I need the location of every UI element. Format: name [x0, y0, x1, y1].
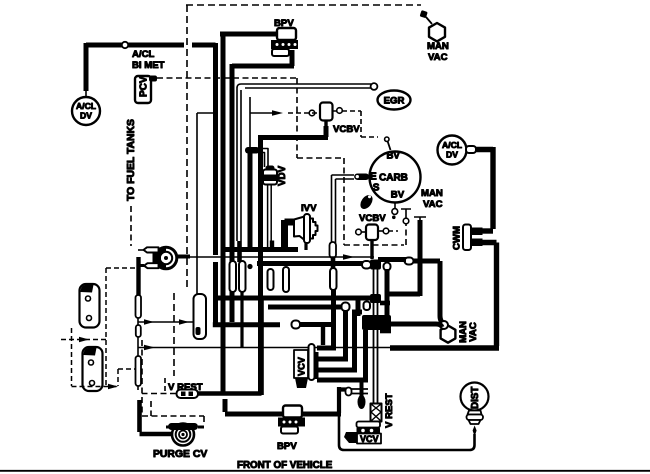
- node pill-cap side line: [292, 321, 301, 329]
- wire coil stub right: [176, 255, 190, 259]
- pin tube stub right2: [380, 329, 391, 334]
- hose DIST line: [339, 414, 475, 450]
- wire x242 drop: [240, 292, 243, 347]
- svg-text:VCBV: VCBV: [359, 213, 386, 224]
- valve V REST pill: [177, 390, 199, 399]
- hose V REST line: [198, 296, 262, 395]
- node pill x233: [230, 261, 237, 292]
- node VCBV right port: [337, 108, 343, 114]
- node connector on A/CL hose: [122, 42, 128, 48]
- pin bobbin: [360, 381, 364, 399]
- svg-text:MAN: MAN: [421, 188, 443, 199]
- valve BPV top band: [271, 40, 298, 49]
- svg-text:A/CL: A/CL: [442, 140, 462, 150]
- valve VCV mid label box: [294, 350, 308, 378]
- label VCV lower box: [357, 434, 381, 444]
- svg-text:BI MET: BI MET: [132, 60, 165, 71]
- svg-text:MAN: MAN: [427, 41, 449, 52]
- valve V REST column: [371, 404, 382, 422]
- wire V REST dashes: [142, 340, 176, 416]
- dashed boundary lower segment: [173, 293, 175, 376]
- pin tube stub right1: [380, 301, 390, 306]
- svg-text:VCV: VCV: [360, 434, 379, 444]
- valve V REST plate1: [357, 422, 381, 428]
- hose VCBV to main drop: [259, 126, 329, 393]
- hose tap branch to hexagon: [412, 261, 445, 325]
- hose IVV feed: [285, 220, 298, 250]
- svg-text:BV: BV: [387, 151, 401, 162]
- main bus H1: [222, 247, 298, 252]
- wire long thin arrow line y347: [138, 347, 390, 349]
- wire left thin vertical with pills: [136, 257, 140, 295]
- wire carb spark link: [388, 141, 391, 150]
- svg-text:BV: BV: [391, 190, 405, 201]
- svg-text:E: E: [370, 172, 377, 183]
- svg-text:VAC: VAC: [423, 199, 443, 210]
- wire nest stub: [321, 327, 325, 345]
- svg-text:CARB: CARB: [379, 173, 408, 184]
- node VDV branch pill: [245, 147, 260, 154]
- svg-text:IVV: IVV: [301, 203, 317, 214]
- pin PCV outlet: [149, 76, 157, 82]
- svg-text:TO FUEL TANKS: TO FUEL TANKS: [126, 119, 137, 201]
- wire vent arrow line: [250, 97, 272, 113]
- hose EGR tube (double line): [237, 84, 371, 241]
- wire H3 to blob stub: [356, 298, 361, 316]
- junction blob: [362, 315, 391, 330]
- svg-text:VCBV: VCBV: [333, 124, 360, 135]
- node pill x242: [239, 261, 246, 292]
- pin stub x272: [270, 241, 274, 248]
- node VCBV lower right port: [383, 228, 389, 234]
- dashed vacuum boundary top: [186, 4, 421, 6]
- wire BPV return hose: [232, 50, 294, 322]
- svg-text:BPV: BPV: [277, 441, 297, 452]
- valve BPV lower base: [281, 427, 298, 434]
- pin coil nipple top: [144, 247, 159, 252]
- label MAN VAC lower (rotated): [458, 321, 479, 343]
- main bus H3: [213, 296, 372, 301]
- svg-text:PCV: PCV: [139, 76, 150, 97]
- node VCBV lower left port: [356, 229, 362, 235]
- pin manifold probe right (tap): [414, 217, 426, 222]
- node fan pill top: [384, 263, 391, 271]
- pin CARB E port: [355, 174, 369, 181]
- hose VCV port4 staircase from blob: [317, 330, 368, 380]
- valve CWM body: [463, 225, 471, 251]
- carburetor CARB: [370, 152, 421, 203]
- wire VCBV dash links: [288, 111, 378, 137]
- node tube diamond top: [370, 260, 381, 270]
- hose cross line y325: [213, 322, 280, 327]
- wire BPV feed hose: [220, 32, 277, 394]
- svg-text:DV: DV: [80, 110, 92, 120]
- valve BPV lower band: [278, 418, 305, 427]
- valve V REST lower tube: [348, 389, 368, 394]
- valve A/CL DV (left circle): [72, 97, 100, 125]
- wire solenoid dashes: [61, 268, 137, 387]
- svg-text:V REST: V REST: [384, 393, 395, 428]
- svg-text:VAC: VAC: [428, 52, 448, 63]
- valve VCV foot: [295, 378, 308, 388]
- hexagon MAN VAC lower: [441, 326, 456, 343]
- node tube diamond mid: [370, 294, 381, 303]
- pin CARB S plug: [358, 193, 375, 212]
- dashed vacuum boundary left: [186, 5, 188, 290]
- valve CWM upper bar: [471, 228, 483, 236]
- node blob top pill: [364, 302, 371, 311]
- pin CARB BV lower stem: [394, 203, 396, 209]
- wire vent line lower: [249, 113, 251, 147]
- wire arrow line y322 thin: [138, 321, 194, 323]
- border bottom line: [0, 470, 650, 472]
- hose tube junction vertical (double): [374, 266, 378, 404]
- pin A/CL DV nipple: [466, 146, 476, 153]
- valve A/CL DV right circle: [438, 136, 467, 165]
- node pill x270: [268, 269, 274, 290]
- valve VCBV lower: [366, 225, 378, 241]
- wire A/CL DV to junction (thick hose): [86, 43, 216, 325]
- wire purge CV dash box: [142, 416, 204, 424]
- node carb spark port dot: [385, 137, 389, 141]
- svg-text:EGR: EGR: [384, 96, 405, 107]
- node pill x333 lower: [330, 268, 337, 290]
- valve VCV body column: [309, 344, 315, 380]
- hose vcbv lower to tap pill: [378, 257, 406, 262]
- node VCBV left port: [309, 110, 315, 116]
- svg-text:CWM: CWM: [452, 226, 463, 250]
- wire branch rect thin: [197, 113, 213, 295]
- pin IVV bottom stub: [304, 242, 307, 250]
- valve PCV body: [135, 76, 151, 103]
- node H4 end pill: [342, 303, 350, 312]
- hose A/CL DV to CWM: [476, 147, 493, 229]
- main bus H2: [257, 261, 364, 266]
- wire pill line to S1: [300, 322, 334, 327]
- label A/CL DV left: [76, 101, 96, 120]
- pin coil block: [153, 252, 162, 264]
- hose purge CV feed: [140, 400, 173, 434]
- svg-text:VCV: VCV: [297, 356, 307, 376]
- pin manifold probe left: [401, 209, 411, 218]
- valve BPV top base: [272, 49, 289, 56]
- svg-text:S: S: [373, 182, 380, 193]
- hose manifold tap: [387, 220, 420, 296]
- purge CV coil: [172, 424, 194, 446]
- node pill x286: [283, 267, 289, 292]
- pin coil nipple bottom: [144, 263, 159, 268]
- node H2 end pill: [362, 261, 371, 269]
- hose BPV lower out: [302, 412, 341, 417]
- hose blob to hexagon: [391, 324, 442, 327]
- coil purge top: [155, 247, 177, 269]
- valve IVV plug: [310, 219, 318, 239]
- hose CARB E tube: [332, 175, 355, 243]
- main bus H4: [268, 305, 342, 310]
- solenoid canister 1: [80, 284, 100, 328]
- hose CWM top link: [482, 228, 493, 233]
- wire PCV dashed signal line: [157, 78, 406, 245]
- valve IVV plate: [294, 217, 305, 241]
- valve IVV bobbin: [304, 214, 310, 243]
- wire A/CL DV drop: [84, 43, 89, 91]
- pin VCBV lower bottom stub: [370, 240, 373, 259]
- hose valve drop to BPV line: [339, 387, 348, 413]
- wire fuel-tank dashed line: [130, 206, 132, 246]
- valve EGR: [378, 91, 411, 110]
- hose E-tube drop to VCV port1: [317, 290, 336, 348]
- node tap branch pill: [405, 258, 414, 265]
- svg-text:DIST: DIST: [470, 387, 481, 409]
- valve trapezoid foot: [344, 432, 357, 443]
- valve BPV top body: [277, 28, 296, 40]
- valve V REST plate2: [357, 428, 381, 434]
- hose BPV lower feed: [225, 399, 282, 414]
- svg-text:DV: DV: [446, 150, 458, 160]
- hose VCV port2 staircase from H4: [317, 311, 348, 359]
- valve DIST neck: [468, 411, 482, 415]
- valve DIST circle: [461, 383, 489, 411]
- svg-text:VDV: VDV: [277, 165, 288, 186]
- node column connector: [194, 294, 207, 339]
- hose VCV port3 staircase from blob: [317, 312, 362, 370]
- node hexagon ring: [440, 321, 448, 329]
- hexagon MAN VAC top: [420, 10, 428, 18]
- valve VDV cap: [266, 166, 275, 172]
- valve BPV lower top: [283, 406, 302, 418]
- wire fan drop from pill: [385, 269, 390, 317]
- valve CWM lower bar: [471, 239, 483, 247]
- pin A/CL DV stem: [85, 91, 87, 97]
- valve VCBV upper: [320, 103, 333, 121]
- node EGR connector: [371, 83, 378, 90]
- pin DIST tip: [473, 426, 477, 437]
- pin VCBV bottom stub: [324, 120, 327, 128]
- hose VDV branch elbow: [259, 149, 268, 168]
- solenoid canister 2: [83, 347, 103, 391]
- svg-text:PURGE CV: PURGE CV: [153, 449, 207, 460]
- hose CWM bottom to elbow: [390, 243, 499, 349]
- purge CV cap: [168, 423, 198, 430]
- valve VDV body: [263, 170, 277, 185]
- svg-text:A/CL: A/CL: [132, 49, 155, 60]
- wire VCBV lower dash: [389, 230, 398, 232]
- svg-text:VAC: VAC: [468, 322, 479, 342]
- hose VDV lower tube: [268, 185, 272, 250]
- svg-text:FRONT OF VEHICLE: FRONT OF VEHICLE: [237, 460, 333, 471]
